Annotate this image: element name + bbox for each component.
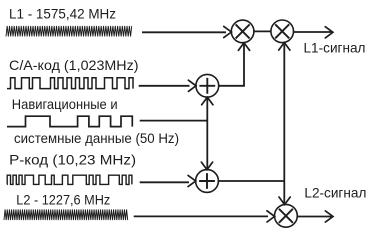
svg-text:Р-код (10,23 MHz): Р-код (10,23 MHz) [9, 151, 136, 167]
svg-text:системные данные (50 Hz): системные данные (50 Hz) [14, 130, 179, 146]
svg-text:L2-сигнал: L2-сигнал [304, 184, 366, 200]
svg-text:L1-сигнал: L1-сигнал [304, 40, 366, 56]
svg-text:Навигационные и: Навигационные и [12, 96, 118, 112]
svg-text:L2 - 1227,6 MHz: L2 - 1227,6 MHz [16, 191, 110, 207]
svg-text:L1 - 1575,42 MHz: L1 - 1575,42 MHz [9, 6, 116, 22]
svg-text:С/А-код (1,023MHz): С/А-код (1,023MHz) [9, 57, 139, 73]
